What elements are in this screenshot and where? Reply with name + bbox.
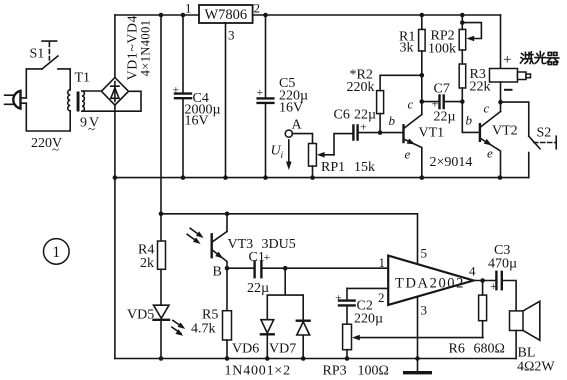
- svg-text:VD1~VD4: VD1~VD4: [125, 15, 140, 80]
- svg-text:16V: 16V: [185, 113, 209, 128]
- svg-text:b: b: [389, 113, 396, 128]
- svg-text:680Ω: 680Ω: [474, 342, 505, 357]
- svg-text:+: +: [432, 97, 439, 111]
- label RP3 100Ω: [323, 364, 389, 379]
- wire W7806 pin 3 down to ground rail: [225, 23, 227, 178]
- wire C7 node to VT2 base: [462, 102, 478, 133]
- wire to clipping diodes: [267, 268, 303, 295]
- node dot ground rail VT1e: [420, 175, 425, 180]
- node B dot: [225, 266, 230, 271]
- wire R4 to VD5: [160, 269, 162, 305]
- capacitor C6: [353, 120, 380, 140]
- svg-text:C1: C1: [249, 250, 265, 265]
- svg-text:22µ: 22µ: [354, 108, 376, 123]
- svg-text:4Ω2W: 4Ω2W: [517, 360, 555, 375]
- svg-text:1: 1: [379, 255, 386, 270]
- regulator W7806: [199, 5, 253, 23]
- capacitor C7: [422, 96, 463, 111]
- switch S2: [529, 136, 557, 177]
- svg-text:~: ~: [52, 142, 59, 157]
- label R4 2k: [138, 243, 154, 272]
- wire to VT1 base: [380, 132, 402, 134]
- figure number 1 circled: [44, 239, 70, 265]
- svg-text:TDA2002: TDA2002: [395, 276, 465, 292]
- svg-text:VT1: VT1: [419, 126, 445, 141]
- node dot ground rail VT2e: [498, 175, 503, 180]
- diode VD7: [297, 295, 310, 358]
- svg-text:i: i: [281, 151, 284, 161]
- node dot pin4 / R6: [480, 278, 485, 283]
- label C7 22µ: [434, 82, 456, 125]
- phototransistor VT3: [212, 214, 227, 268]
- svg-text:VD6: VD6: [232, 342, 259, 357]
- wire RP1 bottom to ground rail: [312, 166, 314, 178]
- potentiometer RP3: [343, 324, 483, 358]
- capacitor C1: [227, 250, 388, 277]
- node dot x161 mid rail: [159, 212, 164, 217]
- wire R1 to VT1 collector: [421, 51, 423, 115]
- wire rail to laser: [500, 15, 502, 69]
- LED VD5: [154, 305, 170, 358]
- svg-text:VD5: VD5: [127, 308, 154, 323]
- svg-text:100k: 100k: [428, 42, 456, 57]
- capacitor C4: [173, 15, 192, 178]
- wire unregulated supply vertical x161: [160, 15, 162, 241]
- wire plug bottom to T1 primary bottom: [26, 103, 70, 131]
- resistor R3: [459, 50, 466, 102]
- svg-text:~: ~: [88, 121, 95, 136]
- labels VT2 c b e: [466, 101, 518, 161]
- wire S1 to T1 primary: [58, 69, 70, 90]
- resistor R6: [479, 281, 487, 338]
- wire top rail left segment: [115, 14, 199, 16]
- potentiometer RP2: [459, 15, 481, 50]
- svg-text:22µ: 22µ: [247, 281, 269, 296]
- resistor R1: [419, 15, 426, 51]
- node dots bottom rail: [159, 356, 164, 361]
- node dot VT1 collector / C7: [420, 99, 425, 104]
- resistor R4: [158, 241, 166, 269]
- bridge rectifier VD1~VD4 diamond: [101, 78, 128, 106]
- wire plug top to S1: [26, 69, 42, 98]
- potentiometer RP1: [309, 134, 354, 167]
- node dot R2 top on collector line: [420, 73, 425, 78]
- svg-text:5: 5: [421, 246, 428, 261]
- transformer T1 primary winding: [68, 90, 70, 111]
- pin 3 wire to ground: [417, 297, 419, 372]
- label R3 22k: [470, 67, 491, 95]
- svg-text:22µ: 22µ: [434, 110, 456, 125]
- svg-text:c: c: [484, 101, 490, 116]
- svg-text:+: +: [503, 52, 511, 68]
- svg-text:R5: R5: [202, 308, 218, 323]
- transistor VT2: [480, 112, 501, 178]
- node dot base VT1 / R2 / C6: [378, 130, 383, 135]
- svg-text:C6: C6: [334, 108, 350, 123]
- svg-text:100Ω: 100Ω: [358, 364, 389, 379]
- svg-text:3: 3: [421, 303, 428, 318]
- wire mid rail (+9V to TDA pin5): [161, 214, 418, 265]
- op-amp TDA2002: [388, 256, 473, 305]
- diode VD6: [261, 295, 274, 358]
- svg-text:T1: T1: [75, 71, 91, 86]
- svg-text:2×9014: 2×9014: [430, 155, 473, 170]
- ground symbol: [403, 371, 432, 374]
- wire ground rail of top section: [115, 177, 529, 179]
- node dot rail C4: [181, 13, 186, 18]
- node dot ground rail pin3: [223, 175, 228, 180]
- capacitor C5: [257, 15, 274, 178]
- svg-text:VD7: VD7: [269, 342, 296, 357]
- labels VT1 c b e: [389, 97, 445, 162]
- wire laser cathode down: [500, 82, 502, 112]
- svg-text:A: A: [292, 118, 303, 133]
- VD5 emission arrows: [172, 320, 187, 338]
- wire top rail right segment: [253, 14, 501, 16]
- label RP1 15k: [321, 160, 375, 175]
- svg-text:1: 1: [52, 244, 60, 261]
- label C6 22µ: [334, 108, 377, 123]
- wire T1 secondary top to bridge: [82, 90, 101, 92]
- svg-text:3: 3: [228, 28, 235, 43]
- label 220V: [31, 136, 62, 157]
- svg-text:2k: 2k: [140, 256, 154, 271]
- label 激光器 (drawn glyphs): [521, 52, 559, 65]
- AC plug: [5, 91, 27, 109]
- label 9V: [80, 116, 101, 137]
- capacitor C2: [335, 288, 388, 324]
- bridge diode symbol: [111, 82, 119, 102]
- label C5: [279, 76, 308, 116]
- svg-text:15k: 15k: [354, 160, 375, 175]
- svg-text:S1: S1: [30, 47, 45, 62]
- label C3 470µ: [488, 243, 517, 272]
- node dot rail x161: [159, 13, 164, 18]
- svg-text:+: +: [335, 291, 342, 305]
- node dot ground rail C4: [181, 175, 186, 180]
- node dot ground rail left: [113, 175, 118, 180]
- svg-text:b: b: [466, 113, 473, 128]
- svg-text:4.7k: 4.7k: [191, 322, 216, 337]
- svg-text:B: B: [213, 265, 222, 280]
- node dot ground rail RP1: [310, 175, 315, 180]
- svg-text:220k: 220k: [347, 80, 375, 95]
- node dot rail C5: [263, 13, 268, 18]
- svg-text:1N4001×2: 1N4001×2: [225, 364, 291, 379]
- node dot C1/VD6: [283, 266, 288, 271]
- wire A to RP1: [292, 134, 312, 144]
- svg-text:S2: S2: [537, 126, 552, 141]
- svg-text:BL: BL: [518, 346, 536, 361]
- label -: [504, 89, 513, 91]
- node dot C7 / R3 bottom: [460, 99, 465, 104]
- svg-text:+: +: [490, 279, 497, 293]
- svg-text:C7: C7: [434, 82, 450, 97]
- svg-text:470µ: 470µ: [488, 257, 517, 272]
- svg-text:W7806: W7806: [204, 7, 247, 23]
- svg-text:e: e: [405, 147, 411, 162]
- node A terminal: [285, 130, 292, 137]
- wire to S2: [501, 102, 529, 136]
- transformer T1 secondary winding: [82, 91, 84, 111]
- laser head 激光器: [490, 69, 531, 83]
- loudspeaker BL: [510, 301, 540, 358]
- resistor R5: [223, 268, 232, 358]
- svg-text:RP1: RP1: [321, 160, 345, 175]
- svg-text:4: 4: [469, 264, 476, 279]
- svg-text:+: +: [257, 85, 264, 99]
- transformer T1 core: [77, 92, 80, 112]
- svg-text:2: 2: [378, 290, 385, 305]
- label VD6 VD7: [232, 342, 296, 357]
- input arrow Ui: [271, 140, 292, 170]
- wire bridge + output up to rail: [114, 15, 116, 78]
- svg-text:3k: 3k: [400, 41, 414, 56]
- label BL 4Ω2W: [517, 346, 555, 375]
- svg-text:RP3: RP3: [323, 364, 347, 379]
- node dot laser / S2: [498, 100, 503, 105]
- resistor R2: [377, 75, 422, 132]
- svg-text:4×1N4001: 4×1N4001: [139, 20, 153, 77]
- label R6 680Ω: [449, 342, 505, 357]
- wire bottom rail: [115, 358, 516, 360]
- svg-text:e: e: [487, 146, 493, 161]
- wire bridge - output down (left vertical to bottom rail): [114, 105, 116, 358]
- node dot VT3 collector on mid rail: [225, 212, 230, 217]
- label RP2 100k: [428, 29, 456, 57]
- pin 4 wire: [474, 280, 496, 282]
- label R5 4.7k: [191, 308, 218, 337]
- node dot rail R1: [420, 13, 425, 18]
- node dot rail RP2: [460, 13, 465, 18]
- VT3 light arrows: [187, 228, 205, 246]
- svg-text:+: +: [173, 83, 180, 97]
- label C1 22µ: [247, 250, 269, 296]
- label *R2 220k: [347, 68, 375, 96]
- label VT3 3DU5: [228, 237, 296, 252]
- svg-text:220µ: 220µ: [354, 312, 383, 327]
- svg-text:c: c: [408, 97, 414, 112]
- svg-text:1: 1: [185, 1, 192, 16]
- svg-text:22k: 22k: [470, 80, 491, 95]
- capacitor C3: [490, 272, 516, 311]
- node dot ground rail C5: [263, 175, 268, 180]
- transistor VT1: [404, 115, 422, 178]
- label C2 220µ: [354, 299, 383, 327]
- svg-text:16V: 16V: [279, 101, 303, 116]
- svg-text:VT2: VT2: [492, 124, 518, 139]
- switch S1: [42, 41, 58, 69]
- label C4: [185, 91, 221, 128]
- label R1 3k: [399, 30, 415, 56]
- svg-text:R6: R6: [449, 342, 465, 357]
- wire T1 secondary bottom to bridge right vertex: [82, 91, 141, 111]
- svg-text:2: 2: [254, 1, 261, 16]
